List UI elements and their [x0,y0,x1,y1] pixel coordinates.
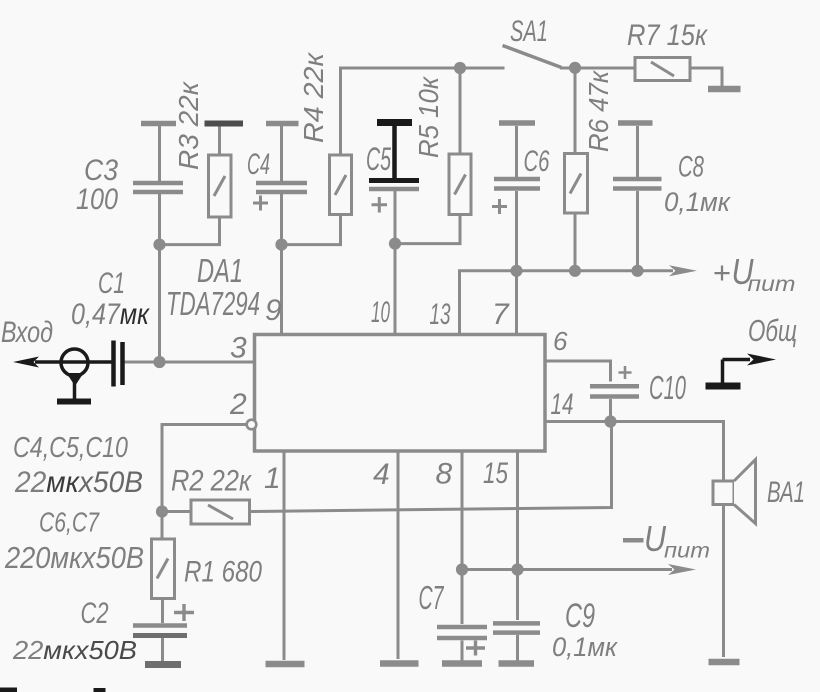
svg-text:22мкх50В: 22мкх50В [12,635,137,665]
svg-text:8: 8 [436,458,453,491]
svg-text:7: 7 [492,298,510,331]
svg-text:0,1мк: 0,1мк [664,187,731,217]
svg-text:15: 15 [483,457,508,490]
svg-text:С6,С7: С6,С7 [39,507,100,538]
svg-text:1: 1 [264,462,281,495]
svg-text:R6 47к: R6 47к [583,69,614,152]
svg-text:C9: C9 [565,597,595,635]
svg-text:R5 10к: R5 10к [413,75,444,158]
svg-text:0,47мк: 0,47мк [71,298,151,331]
svg-text:R2 22к: R2 22к [171,465,253,498]
svg-text:пит: пит [748,273,796,296]
svg-text:4: 4 [373,458,390,491]
svg-text:220мкх50В: 220мкх50В [4,540,144,575]
svg-text:C10: C10 [649,369,686,406]
svg-text:+: + [713,255,731,290]
svg-text:R1 680: R1 680 [184,556,262,589]
svg-text:SA1: SA1 [510,15,548,48]
svg-text:6: 6 [553,326,568,356]
svg-text:C6: C6 [524,145,550,178]
svg-text:С2: С2 [81,597,109,630]
svg-text:Вход: Вход [1,316,53,349]
svg-text:DA1: DA1 [197,252,243,289]
svg-text:22мкх50В: 22мкх50В [14,466,143,499]
svg-text:C8: C8 [678,151,704,184]
svg-text:R7 15к: R7 15к [627,19,709,52]
svg-text:C7: C7 [419,579,445,616]
svg-text:14: 14 [551,388,574,421]
svg-text:C5: C5 [366,141,391,177]
svg-text:C4,C5,C10: C4,C5,C10 [13,432,128,464]
svg-text:2: 2 [229,388,247,421]
svg-text:C1: C1 [98,267,125,300]
svg-text:0,1мк: 0,1мк [552,632,618,662]
svg-text:100: 100 [76,183,118,216]
svg-text:13: 13 [430,298,451,331]
svg-text:9: 9 [265,294,282,327]
svg-text:10: 10 [371,296,390,329]
svg-text:C4: C4 [247,148,270,181]
svg-text:ВА1: ВА1 [767,476,805,509]
svg-text:Общ: Общ [748,313,797,348]
svg-text:R4 22к: R4 22к [298,51,329,143]
svg-text:R3 22к: R3 22к [173,80,204,170]
svg-text:3: 3 [230,332,247,365]
svg-text:TDA7294: TDA7294 [166,285,260,322]
svg-text:пит: пит [664,540,710,563]
